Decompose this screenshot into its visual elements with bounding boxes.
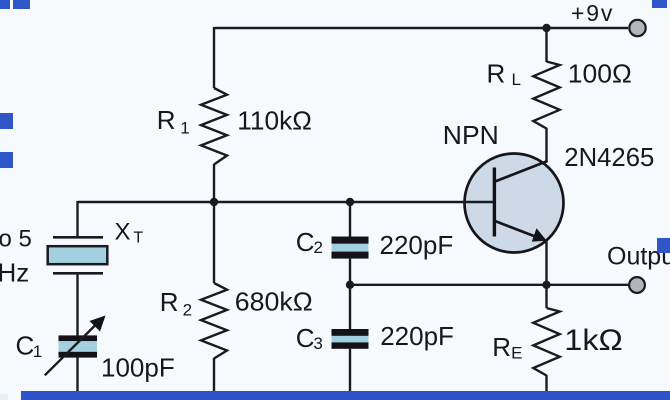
wire: top supply rail y=28	[214, 27, 628, 29]
crystal XT body	[48, 246, 108, 264]
blue edge mark top-left b	[13, 0, 30, 9]
wire: C2 top from mid rail	[349, 202, 351, 237]
svg-text:L: L	[512, 70, 521, 89]
wire: C1 to bottom edge	[76, 357, 78, 400]
svg-text:C: C	[296, 227, 315, 257]
capacitor C2 bottom bar	[332, 252, 369, 259]
capacitor C3 top bar	[332, 329, 369, 336]
svg-text:R: R	[160, 287, 179, 317]
wire: C2 bottom to lower rail	[349, 259, 351, 285]
blue edge mark bottom-left corner	[0, 394, 8, 400]
node: junction mid rail / R1-R2	[210, 198, 218, 206]
wire: mid rail y=202 from crystal corner to transistor base	[78, 201, 494, 203]
svg-text:220pF: 220pF	[380, 321, 454, 351]
resistor R1 zigzag	[201, 88, 227, 165]
capacitor C1 bottom bar	[59, 352, 98, 358]
capacitor C1 top bar	[59, 335, 98, 341]
wire: RE top from lower rail	[545, 285, 547, 308]
svg-text:1: 1	[180, 119, 189, 138]
svg-text:2N4265: 2N4265	[564, 142, 654, 172]
transistor emitter arrowhead	[532, 228, 547, 241]
partial glyph at bottom right (cut text)	[656, 397, 665, 399]
wire: R2 to bottom edge	[213, 358, 215, 400]
terminal +9v	[629, 20, 645, 36]
svg-text:R: R	[157, 105, 176, 135]
wire: emitter down to lower rail	[545, 240, 547, 285]
wire: R2 top from mid rail	[213, 202, 215, 283]
resistor RE zigzag	[533, 308, 559, 376]
wire: C3 to bottom edge	[349, 349, 351, 400]
capacitor C2 blue band	[332, 244, 369, 252]
capacitor C3 bottom bar	[332, 342, 369, 348]
svg-text:100pF: 100pF	[101, 353, 175, 383]
transistor Q1 body circle	[465, 154, 564, 253]
wire: R1 bottom to mid rail	[213, 164, 215, 203]
svg-text:680kΩ: 680kΩ	[235, 287, 313, 317]
svg-text:2: 2	[314, 238, 323, 257]
wire: RL bottom to collector	[545, 128, 547, 162]
node: junction at top rail and RL branch	[542, 24, 550, 32]
capacitor C3 blue band	[332, 336, 369, 343]
resistor RL zigzag	[533, 62, 559, 129]
transistor base bar	[493, 168, 496, 237]
svg-text:2: 2	[183, 301, 192, 320]
blue edge mark bottom bar	[21, 391, 670, 400]
resistor R2 zigzag	[201, 283, 227, 359]
svg-text:T: T	[133, 230, 143, 247]
wire: RE to bottom edge	[545, 375, 547, 400]
svg-text:110kΩ: 110kΩ	[237, 106, 311, 136]
svg-text:220pF: 220pF	[380, 230, 454, 260]
wire: crystal to C1	[76, 275, 78, 337]
node: junction mid rail / C2	[346, 198, 354, 206]
wire: RL top from rail junction	[545, 28, 547, 62]
transistor collector line	[495, 161, 548, 182]
node: junction lower rail / C2-C3	[346, 281, 354, 289]
terminal Output	[629, 277, 645, 293]
wire: crystal branch down from corner	[76, 201, 78, 236]
svg-text:3: 3	[313, 334, 322, 353]
svg-text:R: R	[487, 59, 506, 89]
crystal XT top plate	[53, 236, 103, 239]
node: junction lower rail / emitter	[542, 281, 550, 289]
svg-text:R: R	[492, 332, 511, 362]
wire: lower rail y=284.8 from C2 column to output terminal	[350, 284, 628, 286]
blue edge mark left lower	[0, 152, 13, 168]
wire: base wire inside transistor	[463, 201, 493, 203]
blue edge mark left upper	[0, 113, 13, 129]
blue edge mark top-right	[652, 0, 667, 8]
blue edge mark right at output	[657, 238, 670, 253]
blue edge mark top-left a	[0, 0, 10, 9]
svg-text:1: 1	[33, 342, 42, 361]
partial glyph at bottom center (cut text)	[593, 394, 605, 400]
wire: C3 top from lower rail	[349, 285, 351, 330]
wire: R1 top vertical from rail corner	[213, 27, 215, 88]
svg-text:Hz: Hz	[0, 258, 29, 288]
C1 variable arrow shaft	[45, 323, 98, 376]
capacitor C1 blue band	[59, 341, 98, 352]
svg-text:C: C	[296, 323, 315, 353]
svg-text:100Ω: 100Ω	[568, 59, 632, 89]
svg-text:+9v: +9v	[571, 0, 614, 26]
svg-text:X: X	[115, 219, 131, 246]
transistor emitter line	[495, 221, 543, 240]
C1 variable arrow head	[90, 316, 106, 332]
svg-text:E: E	[511, 344, 522, 363]
svg-text:o 5: o 5	[0, 226, 32, 253]
svg-text:1kΩ: 1kΩ	[564, 324, 623, 357]
capacitor C2 top bar	[332, 237, 369, 244]
svg-text:C: C	[16, 331, 35, 361]
svg-text:NPN: NPN	[443, 120, 499, 150]
crystal XT bottom plate	[53, 272, 103, 275]
